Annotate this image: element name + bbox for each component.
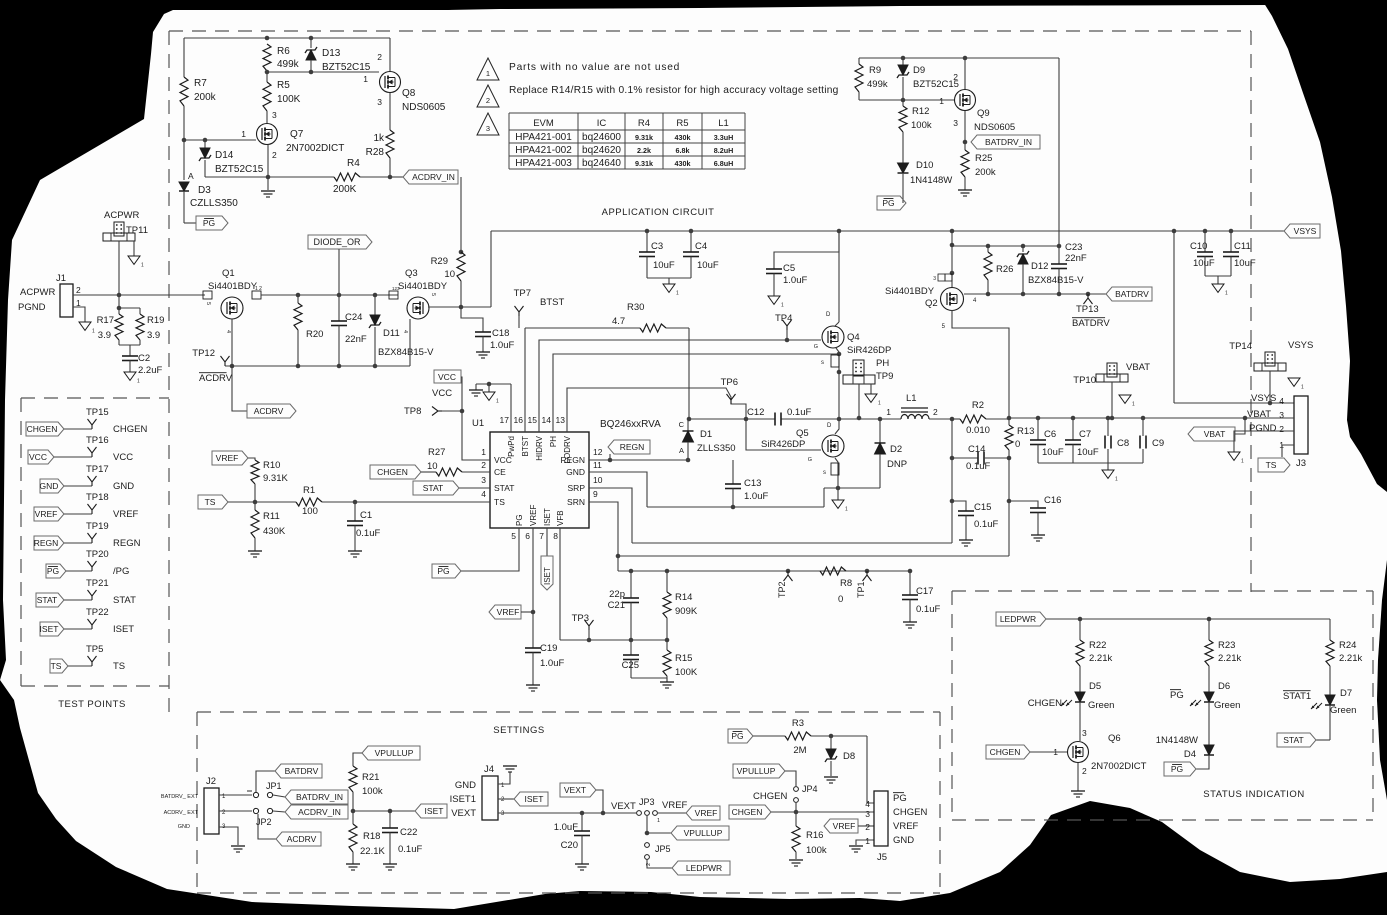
svg-text:0.1uF: 0.1uF	[787, 407, 811, 418]
wire VBAT tag stub	[1235, 418, 1245, 434]
svg-text:VSYS: VSYS	[1294, 226, 1317, 236]
svg-text:9: 9	[593, 489, 598, 499]
svg-text:430k: 430k	[675, 133, 691, 142]
zener D9 BZT52C15	[902, 58, 904, 65]
net tag TS (J3)	[1258, 458, 1290, 472]
transistor Q9 NDS0605	[955, 90, 976, 111]
zener D14 BZT52C15	[204, 140, 206, 148]
wire VEXT line	[498, 812, 636, 814]
svg-text:TP18: TP18	[86, 492, 109, 503]
svg-text:D14: D14	[215, 150, 234, 161]
svg-text:SETTINGS: SETTINGS	[493, 725, 545, 736]
svg-text:ACDRV_IN: ACDRV_IN	[412, 172, 455, 182]
svg-text:SiR426DP: SiR426DP	[761, 439, 805, 450]
wire Q9 drain	[964, 58, 966, 89]
svg-text:1: 1	[657, 818, 660, 824]
net tag VCC (boxed)	[434, 370, 461, 383]
svg-text:ISET1: ISET1	[450, 794, 476, 805]
ground C20	[575, 863, 589, 865]
jumper JP2	[253, 808, 258, 813]
wire VREF to R10	[248, 458, 255, 460]
svg-text:STAT1: STAT1	[1283, 691, 1311, 702]
svg-text:PG: PG	[203, 218, 215, 228]
svg-text:11: 11	[593, 460, 602, 470]
svg-text:Replace R14/R15 with 0.1% resi: Replace R14/R15 with 0.1% resistor for h…	[509, 85, 839, 96]
svg-text:R20: R20	[306, 329, 323, 340]
wire bottom ACDRV rail	[225, 365, 410, 367]
testpoint TP7	[518, 312, 520, 316]
ground C16	[1031, 534, 1045, 536]
svg-text:BATDRV_ EXT: BATDRV_ EXT	[161, 794, 199, 800]
svg-text:C25: C25	[622, 660, 639, 671]
svg-text:VCC: VCC	[432, 388, 452, 399]
ground C18	[476, 351, 490, 353]
capacitor C2 2.2uF	[122, 355, 138, 357]
svg-text:GND: GND	[455, 780, 476, 791]
svg-text:C4: C4	[695, 241, 707, 252]
svg-text:CHGEN: CHGEN	[377, 467, 408, 477]
scan black border right	[1262, 0, 1387, 492]
svg-text:D3: D3	[198, 185, 211, 196]
svg-text:CHGEN: CHGEN	[893, 807, 927, 818]
svg-text:J5: J5	[877, 852, 887, 863]
svg-text:TS: TS	[1266, 460, 1277, 470]
svg-text:PG: PG	[893, 793, 907, 804]
resistor R1 100	[296, 498, 322, 506]
wire D4 to PG tag	[1196, 755, 1209, 769]
test point TP15 CHGEN	[26, 422, 64, 436]
transistor Q4 SiR426DP	[838, 231, 840, 322]
wire BTST pin16 to R30	[524, 328, 526, 432]
svg-text:CHGEN: CHGEN	[732, 807, 763, 817]
svg-text:2.2k: 2.2k	[637, 146, 651, 155]
svg-text:100K: 100K	[277, 94, 301, 105]
net tag VSYS	[1284, 224, 1320, 238]
svg-text:C1: C1	[360, 510, 372, 521]
svg-text:430k: 430k	[675, 159, 691, 168]
svg-text:1: 1	[781, 302, 784, 308]
svg-text:VFB: VFB	[556, 510, 565, 526]
resistor R29 10 gate resistor	[460, 177, 462, 252]
wire JP3 middle down	[646, 816, 648, 833]
wire LEDPWR rail	[1046, 618, 1330, 620]
net tag VPULLUP (R21)	[362, 746, 420, 760]
wire PH rail	[839, 418, 901, 420]
svg-text:Q3: Q3	[405, 268, 418, 279]
svg-text:G: G	[808, 457, 812, 463]
net tag VREF (mid-left)	[212, 451, 248, 465]
resistor R4 200K	[334, 173, 360, 181]
svg-text:TP21: TP21	[86, 578, 109, 589]
ground R16	[789, 859, 803, 861]
resistor R21 100k	[349, 766, 357, 792]
svg-text:2.2uF: 2.2uF	[138, 365, 162, 376]
svg-text:PG: PG	[47, 566, 59, 576]
net tag ISET (settings)	[415, 804, 447, 818]
resistor R13 0	[1005, 425, 1013, 450]
wire Q1 to Q3 rail	[261, 294, 398, 296]
test point TP21 STAT	[36, 593, 64, 607]
resistor R19 3.9	[139, 308, 141, 314]
svg-text:909K: 909K	[675, 606, 698, 617]
ground C15	[959, 539, 973, 541]
svg-text:R17: R17	[97, 315, 114, 326]
ground Q5	[837, 488, 839, 500]
svg-text:C5: C5	[783, 263, 795, 274]
svg-text:1: 1	[486, 69, 490, 78]
net tag TS (left)	[198, 495, 228, 509]
wire GND/C13 bottom rail	[647, 506, 824, 508]
svg-text:STAT: STAT	[37, 595, 57, 605]
svg-text:1: 1	[939, 96, 944, 106]
svg-text:VEXT: VEXT	[451, 808, 476, 819]
ground TP14	[1288, 378, 1300, 386]
svg-text:PGND: PGND	[1249, 423, 1277, 434]
resistor R10 9.31K	[251, 460, 259, 484]
svg-text:Green: Green	[1088, 700, 1114, 711]
svg-text:C2: C2	[138, 353, 150, 364]
wire R7 column	[183, 38, 185, 77]
svg-text:R13: R13	[1017, 426, 1034, 437]
svg-text:200k: 200k	[194, 92, 217, 103]
scan black border bottom	[0, 680, 1387, 915]
svg-text:Si4401BDY: Si4401BDY	[208, 281, 258, 292]
svg-text:Q4: Q4	[847, 332, 860, 343]
svg-text:1: 1	[1115, 476, 1118, 482]
svg-text:TP14: TP14	[1229, 341, 1252, 352]
wire C5 branch	[774, 231, 839, 269]
wire Q5 source	[835, 458, 838, 488]
svg-text:R4: R4	[638, 118, 650, 129]
resistor R2 0.010	[950, 417, 955, 422]
ground Q6	[1071, 790, 1085, 792]
svg-text:TP22: TP22	[86, 607, 109, 618]
wire DIODE_OR stub	[338, 249, 340, 295]
svg-text:TP3: TP3	[572, 613, 589, 624]
svg-text:0: 0	[838, 594, 843, 605]
svg-text:1: 1	[886, 407, 891, 417]
svg-text:Green: Green	[1330, 705, 1356, 716]
svg-text:1: 1	[1301, 384, 1304, 390]
svg-text:1: 1	[1132, 401, 1135, 407]
svg-text:PH: PH	[549, 436, 558, 447]
wire PwPd ground rail	[476, 383, 511, 385]
ground R25	[958, 189, 972, 191]
IC U1 BQ246xxRVA body	[490, 432, 589, 528]
jumper JP5	[645, 843, 650, 848]
svg-text:A: A	[679, 446, 684, 455]
svg-text:STAT: STAT	[423, 483, 443, 493]
svg-text:VPULLUP: VPULLUP	[684, 828, 723, 838]
svg-text:C: C	[679, 420, 685, 429]
svg-text:VCC: VCC	[113, 452, 133, 463]
transistor Q8 NDS0605	[380, 72, 401, 93]
svg-text:200k: 200k	[975, 167, 996, 178]
svg-text:10uF: 10uF	[1042, 447, 1064, 458]
transistor Q7 2N7002DICT	[257, 124, 278, 145]
svg-text:REGN: REGN	[34, 538, 59, 548]
svg-text:G: G	[814, 344, 818, 350]
wire R5 to Q7	[266, 111, 268, 123]
resistor R16 100k	[795, 812, 797, 826]
svg-text:PG: PG	[1170, 690, 1184, 701]
wire J3 TS pin	[1282, 445, 1294, 457]
wire TP3 rail	[560, 639, 667, 641]
capacitor C19 1.0uF	[532, 612, 534, 648]
svg-text:2: 2	[865, 822, 870, 832]
net tag STAT (U1)	[413, 481, 459, 495]
svg-text:D: D	[827, 423, 832, 429]
resistor R28 1k	[386, 130, 394, 158]
svg-text:10uF: 10uF	[1077, 447, 1099, 458]
svg-text:3: 3	[1082, 728, 1087, 738]
svg-text:D10: D10	[916, 160, 933, 171]
wire R2 left sense column	[951, 419, 953, 543]
wire pin6 to VREF tag and C19	[532, 528, 534, 612]
svg-text:R4: R4	[347, 158, 360, 169]
svg-text:ACDRV_IN: ACDRV_IN	[298, 807, 341, 817]
wire R9/D9 node	[859, 99, 954, 101]
svg-text:Si4401BDY: Si4401BDY	[398, 281, 448, 292]
resistor R18 22.1K	[352, 811, 354, 824]
wire CHGEN line to J5	[771, 811, 874, 813]
svg-text:PG: PG	[1171, 764, 1183, 774]
wire HIDRV pin15 to Q4 gate	[539, 340, 821, 432]
svg-text:1: 1	[1241, 458, 1244, 464]
wire VCC tag to pin1 column	[461, 377, 490, 460]
svg-text:R14: R14	[675, 592, 692, 603]
net tag ACDRV	[247, 404, 296, 418]
svg-text:C9: C9	[1152, 438, 1164, 449]
resistor R7	[180, 77, 188, 106]
svg-text:bq24640: bq24640	[582, 158, 621, 169]
net tag PG (pin5)	[432, 564, 461, 578]
svg-text:VREF: VREF	[662, 800, 688, 811]
resistor R17 3.9	[118, 295, 120, 314]
net tag VREF (pin6)	[489, 605, 521, 619]
svg-text:PG: PG	[731, 731, 743, 741]
wire top rail of ACDRV driver	[184, 37, 390, 39]
test point TP19 REGN	[34, 536, 64, 550]
svg-text:VREF: VREF	[833, 821, 856, 831]
wire D2 to Q5 source	[824, 487, 880, 489]
wire R7 gate column down to D3	[183, 140, 185, 180]
svg-text:8.2uH: 8.2uH	[714, 146, 734, 155]
svg-text:16: 16	[514, 415, 524, 425]
svg-text:4: 4	[865, 799, 870, 809]
svg-text:VREF: VREF	[893, 821, 919, 832]
svg-text:VEXT: VEXT	[564, 785, 586, 795]
wire R3 line	[753, 735, 785, 737]
svg-text:TP12: TP12	[192, 348, 215, 359]
svg-text:IC: IC	[597, 118, 607, 129]
svg-text:TP20: TP20	[86, 549, 109, 560]
svg-text:D: D	[826, 312, 831, 318]
status indication dashed box	[952, 590, 1373, 592]
svg-text:R25: R25	[975, 153, 992, 164]
ground C17	[903, 621, 917, 623]
capacitor C13 1.0uF	[732, 460, 734, 484]
svg-text:14: 14	[542, 415, 552, 425]
wire JP4 down to CHGEN line	[795, 803, 797, 812]
wire R17/R19 join	[118, 340, 120, 345]
ground TP11	[133, 241, 135, 256]
wire TS line	[228, 501, 296, 503]
svg-text:R5: R5	[676, 118, 688, 129]
test point TP22 ISET	[40, 622, 64, 636]
svg-text:bq24600: bq24600	[582, 132, 621, 143]
testpoint TP1	[866, 571, 868, 575]
resistor R12 100k	[902, 100, 904, 106]
svg-text:0.1uF: 0.1uF	[966, 461, 990, 472]
svg-text:JP3: JP3	[639, 797, 655, 807]
svg-text:CHGEN: CHGEN	[113, 424, 147, 435]
wire D3 to PG tag	[184, 222, 196, 224]
wire SRN sense line	[618, 555, 1009, 557]
wire ISET node	[353, 810, 415, 812]
ground Q7 source	[261, 190, 275, 192]
ground R11	[248, 550, 262, 552]
svg-text:SRP: SRP	[568, 483, 586, 493]
svg-text:2: 2	[933, 407, 938, 417]
diode D1 ZLLS350	[687, 419, 689, 431]
svg-text:2N7002DICT: 2N7002DICT	[286, 143, 344, 154]
svg-text:CHGEN: CHGEN	[990, 747, 1021, 757]
net tag STAT (D7)	[1277, 733, 1316, 747]
net tag VREF (JP3)	[658, 812, 686, 814]
wire TP9 ground stub	[870, 384, 872, 394]
svg-text:REGN: REGN	[113, 538, 141, 549]
wire R6 to gate node	[266, 71, 268, 82]
svg-text:2.21k: 2.21k	[1339, 653, 1362, 664]
capacitor C16	[1009, 501, 1038, 508]
net tag VEXT	[560, 783, 596, 797]
wire VBAT rail to J3 pin3	[1224, 417, 1294, 419]
header TP9 PH	[853, 360, 864, 376]
svg-text:TP5: TP5	[86, 644, 103, 655]
svg-text:100k: 100k	[911, 120, 932, 131]
testpoint TP12	[224, 362, 226, 366]
svg-text:ISET: ISET	[543, 508, 552, 526]
capacitor C15 0.1uF	[952, 501, 966, 511]
wire TP14 stem	[1269, 371, 1271, 403]
svg-text:R19: R19	[147, 315, 164, 326]
svg-text:5: 5	[205, 302, 211, 305]
capacitor C1 0.1uF	[354, 502, 356, 521]
svg-text:REGN: REGN	[620, 442, 645, 452]
net tag ACDRV_IN	[403, 170, 458, 184]
svg-text:JP5: JP5	[655, 844, 671, 854]
resistor R27 10	[436, 468, 462, 476]
wire VREF to J5 pin2	[858, 825, 874, 827]
capacitor C7 10uF	[1072, 418, 1074, 440]
zener D8	[830, 736, 832, 749]
capacitor C22 0.1uF	[389, 811, 391, 828]
resistor R25 200k	[961, 150, 969, 177]
svg-text:0.1uF: 0.1uF	[356, 528, 380, 539]
svg-text:BZT52C15: BZT52C15	[215, 164, 264, 175]
svg-text:PG: PG	[437, 566, 449, 576]
svg-text:TP8: TP8	[404, 406, 421, 417]
svg-text:BTST: BTST	[540, 297, 564, 308]
net tag VBAT	[1188, 427, 1235, 441]
svg-text:100k: 100k	[806, 845, 827, 856]
wire REGN tag stub	[609, 454, 611, 460]
svg-text:10: 10	[444, 269, 455, 280]
svg-text:1: 1	[92, 328, 95, 334]
wire GND pin11	[589, 472, 647, 507]
net tag PG (D4)	[1164, 762, 1196, 776]
svg-text:6.8uH: 6.8uH	[714, 159, 734, 168]
wire R4 line	[268, 176, 334, 178]
svg-text:STAT: STAT	[113, 595, 136, 606]
svg-text:R8: R8	[840, 578, 852, 589]
svg-text:10uF: 10uF	[697, 260, 719, 271]
wire R30 line	[525, 327, 640, 329]
svg-text:1: 1	[363, 74, 368, 84]
svg-text:Si4401BDY: Si4401BDY	[885, 286, 935, 297]
wire Q7 source down	[267, 145, 269, 190]
svg-text:TP9: TP9	[876, 371, 893, 382]
wire C23 column from Q9 rail	[1058, 58, 1060, 246]
svg-text:ISET: ISET	[425, 806, 444, 816]
svg-text:TP11: TP11	[126, 225, 148, 236]
net tag LEDPWR (JP5)	[647, 859, 672, 868]
wire VFB rail	[618, 570, 912, 572]
svg-text:BATDRV_IN: BATDRV_IN	[296, 792, 343, 802]
wire J5 pin1 ground	[856, 840, 874, 845]
svg-text:STAT: STAT	[1283, 735, 1303, 745]
svg-text:DIODE_OR: DIODE_OR	[313, 237, 361, 247]
connector J3	[1294, 396, 1308, 454]
svg-text:Q1: Q1	[222, 268, 235, 279]
svg-text:R22: R22	[1089, 640, 1106, 651]
svg-text:R2: R2	[972, 400, 984, 411]
zener D11 BZX84B15-V	[374, 295, 376, 315]
wire Q5 drain	[835, 419, 839, 434]
wire TP9 to PH rail	[858, 384, 860, 418]
svg-text:1: 1	[481, 447, 486, 457]
wire VSYS rail	[491, 230, 1284, 232]
svg-text:CHGEN: CHGEN	[1028, 698, 1062, 709]
svg-text:BATDRV_IN: BATDRV_IN	[985, 137, 1032, 147]
svg-text:R26: R26	[996, 264, 1013, 275]
svg-text:C3: C3	[651, 241, 663, 252]
svg-text:R18: R18	[363, 831, 380, 842]
svg-text:ACDRV: ACDRV	[254, 406, 284, 416]
svg-text:3: 3	[481, 475, 486, 485]
svg-text:TP6: TP6	[721, 377, 738, 388]
svg-text:499k: 499k	[867, 79, 888, 90]
testpoint TP3	[588, 626, 590, 630]
net tag ISET (rotated)	[541, 556, 553, 590]
svg-text:2: 2	[272, 150, 277, 160]
svg-text:4: 4	[402, 330, 408, 333]
ground J1	[79, 322, 91, 330]
svg-text:Parts with no value are not us: Parts with no value are not used	[509, 62, 680, 73]
svg-text:BQ246xxRVA: BQ246xxRVA	[600, 419, 661, 430]
wire J2 pin1 to JP1	[219, 794, 252, 796]
svg-text:BZX84B15-V: BZX84B15-V	[378, 347, 434, 358]
wire PwPd pin17	[510, 384, 512, 432]
net tag BATDRV_IN	[971, 135, 1040, 149]
test point TP16 VCC	[28, 450, 54, 464]
wire Q3 drain to VSYS riser	[428, 306, 491, 308]
svg-text:100k: 100k	[362, 786, 383, 797]
svg-text:U1: U1	[472, 418, 484, 429]
wire SRN pin9	[589, 502, 618, 571]
svg-text:1.0uF: 1.0uF	[554, 822, 578, 833]
